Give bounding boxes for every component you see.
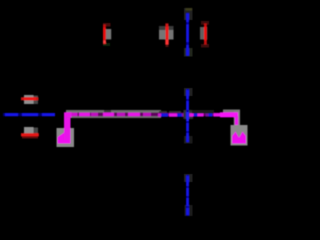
metal2 riser (left via to bus) (64, 114, 71, 140)
metal1 pin stub M1 (top) (184, 8, 193, 57)
via V1 (left, metal2 contact) (57, 128, 75, 147)
metal1 wire W2 segment (vertical, upper mid) (184, 88, 193, 144)
metal1 segment on bus (blue dashes mid) (158, 113, 186, 116)
metal2 highlight band (right) (192, 110, 240, 133)
metal1 wire W3 segment (vertical, lower) (184, 174, 193, 216)
metal2 bus highlight band (66, 110, 181, 118)
node: bus crossing metal1 (junction) (184, 110, 222, 119)
metal2 bus (horizontal dashed magenta) (64, 112, 237, 118)
via V2 (right contact) (231, 125, 248, 146)
metal2 wire (right bright bar) (220, 112, 238, 117)
poly contact stub P1 (top-left) (103, 23, 111, 46)
transistor Q1 drain contact (left device, bottom) (21, 127, 39, 138)
poly contact stub P3 (top-right) (200, 21, 209, 48)
metal2 riser (right, down to via) (235, 116, 238, 137)
transistor Q1 source contact (left device, top) (21, 95, 39, 104)
metal1 wire W1 (left horizontal, dashed blue) (3, 113, 55, 116)
poly contact stub P2 (top-middle) (159, 23, 174, 47)
